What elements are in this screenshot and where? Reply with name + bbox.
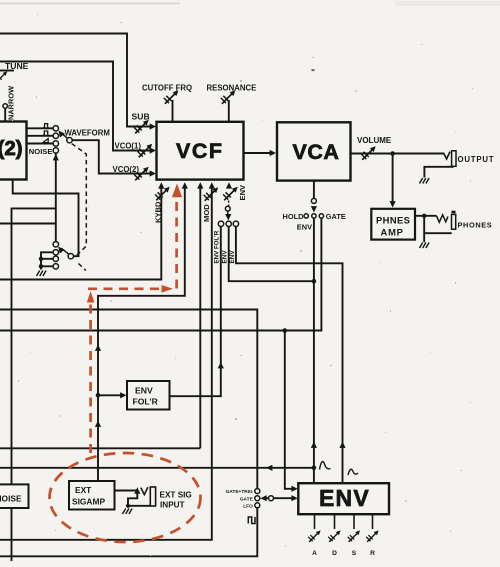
svg-text:VCO(2): VCO(2) bbox=[113, 165, 140, 174]
wire cutoff pot to VCF bbox=[172, 100, 174, 122]
node VCA mode switch common bbox=[312, 214, 316, 218]
wire gate branch to ENV bbox=[285, 331, 294, 489]
glyph ramp wave bbox=[43, 139, 48, 143]
arrow into env folr bbox=[120, 392, 126, 398]
node VCF mod switch pos env folr bbox=[218, 221, 223, 226]
svg-text:VOLUME: VOLUME bbox=[357, 136, 392, 145]
wire SUB feed from top-left bbox=[0, 34, 151, 127]
wire gate distribution bbox=[0, 218, 321, 330]
wire ext jack switch contact bbox=[128, 491, 150, 506]
svg-text:WAVEFORM: WAVEFORM bbox=[65, 129, 110, 138]
svg-text:FOL’R: FOL’R bbox=[133, 397, 159, 407]
pot release R bbox=[366, 530, 378, 541]
glyph LFO square wave bbox=[248, 517, 255, 524]
arrow into phones amp bbox=[390, 201, 396, 207]
arrow trigger arm left bbox=[260, 495, 266, 501]
node junction switch2 gnd a bbox=[39, 257, 43, 261]
wire env to switch right bbox=[236, 227, 343, 484]
arrow into VCF vco1 input bbox=[150, 147, 156, 153]
node junction phones gnd bbox=[422, 214, 426, 218]
wire VCF input 4 from bottom loop bbox=[199, 186, 201, 448]
svg-text:OUTPUT: OUTPUT bbox=[458, 155, 495, 164]
ground ext sig jack bbox=[123, 509, 133, 515]
arrow ext riser up a bbox=[95, 345, 101, 351]
svg-text:LFO: LFO bbox=[243, 503, 253, 509]
svg-text:ENV: ENV bbox=[221, 250, 228, 264]
ground switch2 bbox=[37, 271, 47, 277]
ext path horizontal dashed bbox=[88, 287, 162, 290]
svg-text:GATE: GATE bbox=[240, 496, 254, 502]
wire bottom loop LFO bbox=[0, 448, 257, 556]
ENV box ADSR stubs bbox=[315, 514, 373, 529]
svg-text:ENV: ENV bbox=[319, 485, 370, 511]
svg-text:VCF: VCF bbox=[176, 139, 224, 163]
wire output jack ground branch bbox=[424, 167, 453, 178]
scan speck bbox=[312, 69, 315, 71]
wire env riser bbox=[313, 218, 315, 483]
node waveform switch pos square bbox=[53, 133, 58, 138]
wire VCF to VCA bbox=[244, 152, 272, 154]
wire attack pot stub bbox=[314, 514, 316, 529]
svg-text:EXT: EXT bbox=[75, 485, 92, 495]
arrowheads bbox=[53, 123, 396, 501]
pot ENV depth bbox=[223, 187, 238, 201]
mech link waveform to switch2 dashed bbox=[72, 144, 87, 271]
svg-text:AMP: AMP bbox=[381, 227, 404, 238]
node switch2 pos 3 bbox=[53, 256, 58, 261]
block ENV FOL'R bbox=[127, 381, 170, 410]
svg-text:KYBD: KYBD bbox=[154, 201, 163, 223]
svg-text:S: S bbox=[352, 550, 357, 557]
boxes bbox=[0, 122, 415, 515]
node NARROW switch bbox=[3, 104, 8, 109]
wire phones jack ground branch bbox=[424, 216, 452, 243]
arrow VCA switch down bbox=[311, 206, 317, 212]
wire noise distribution riser bbox=[55, 153, 57, 241]
op block VCF bbox=[157, 122, 244, 180]
node waveform switch pos noise bbox=[53, 148, 58, 153]
pot RESONANCE bbox=[221, 90, 236, 104]
node switch2 pos 2 bbox=[53, 250, 58, 255]
svg-text:ENV: ENV bbox=[297, 223, 312, 232]
glyph env shape a bbox=[320, 462, 331, 470]
pot VCO(1) bbox=[138, 144, 153, 158]
pot CUTOFF FRQ bbox=[164, 90, 179, 104]
node trigger switch common bbox=[269, 496, 274, 501]
wire noise box bottom stub bbox=[11, 508, 13, 561]
pot MOD bbox=[204, 187, 219, 201]
wire noise branch to left edge bbox=[0, 223, 56, 225]
svg-text:D: D bbox=[332, 550, 337, 557]
arrow env right riser up bbox=[339, 442, 345, 448]
wire phones amp to jack bbox=[415, 215, 437, 217]
svg-text:SUB: SUB bbox=[132, 112, 150, 122]
jack PHONES sleeve bbox=[452, 211, 456, 214]
pot attack A bbox=[308, 530, 320, 541]
arrow env riser up bbox=[311, 442, 317, 448]
svg-text:HOLD: HOLD bbox=[283, 212, 305, 221]
jack EXT SIG tip contact bbox=[141, 487, 148, 494]
ext path arrow up bbox=[87, 291, 95, 302]
pot VOLUME bbox=[361, 146, 376, 160]
wire env distribution to switch mid bbox=[229, 227, 314, 282]
node VCF env switch selector bbox=[225, 206, 230, 211]
arrow waveform switch arm bbox=[56, 129, 65, 138]
highlight ellipse ext input bbox=[50, 453, 201, 542]
svg-text:ENV: ENV bbox=[238, 184, 247, 201]
arrow env folr output up bbox=[218, 362, 224, 368]
arrow ext jack up bbox=[134, 487, 140, 493]
ground phones jack bbox=[420, 243, 430, 249]
svg-text:VCO(1): VCO(1) bbox=[115, 142, 142, 151]
wire EXT signal riser to VCF bbox=[98, 186, 185, 481]
ext path thick arrow into VCF bbox=[172, 184, 182, 198]
svg-text:NARROW: NARROW bbox=[7, 86, 16, 120]
ext path riser dashed bbox=[89, 303, 92, 453]
svg-text:VCA: VCA bbox=[293, 140, 340, 164]
wire decay pot stub bbox=[334, 514, 336, 529]
svg-text:SIGAMP: SIGAMP bbox=[72, 497, 105, 507]
pot decay D bbox=[328, 530, 340, 541]
node waveform switch pos pulse bbox=[53, 126, 58, 131]
svg-text:PHNES: PHNES bbox=[376, 215, 410, 226]
wire VCA output bbox=[351, 153, 444, 155]
arrow gate into env box bbox=[291, 486, 297, 492]
wire ENV FOL'R input bbox=[98, 394, 124, 396]
node junction env dist lower bbox=[312, 466, 317, 471]
wire trigger switch arm contact bbox=[263, 497, 268, 499]
svg-text:NOISE: NOISE bbox=[29, 147, 53, 156]
jack PHONES spring contact bbox=[437, 215, 449, 223]
node junction env folr input bbox=[96, 393, 101, 398]
glyph square wave bbox=[43, 131, 49, 135]
svg-text:ENV: ENV bbox=[135, 386, 153, 396]
node junction ext jack gnd bbox=[126, 504, 130, 508]
pot SUB bbox=[134, 120, 149, 134]
wire ENV FOL'R output to switch bbox=[170, 227, 221, 397]
wire VCA mode switch stub bbox=[313, 181, 315, 199]
wire ext sigamp to jack bbox=[115, 490, 138, 492]
glyph env shape b bbox=[348, 469, 358, 475]
block EXT SIGAMP bbox=[69, 481, 115, 510]
orange overlay bbox=[50, 184, 201, 543]
node waveform switch pos ramp bbox=[53, 141, 58, 146]
node trigger switch pos gate+trig bbox=[255, 489, 260, 494]
svg-text:GATE+TRIG: GATE+TRIG bbox=[226, 489, 253, 495]
VCO (2) module box bbox=[0, 122, 27, 180]
block PHNES AMP bbox=[371, 209, 415, 240]
wire trigger switch arm to ENV bbox=[274, 497, 294, 499]
wire waveform switch arm lever bbox=[61, 132, 68, 138]
svg-text:ENV FOL’R: ENV FOL’R bbox=[214, 230, 221, 263]
wire waveform line ramp bbox=[27, 143, 54, 145]
pot sustain S bbox=[348, 530, 360, 541]
node trigger switch pos lfo bbox=[255, 503, 260, 508]
wire TUNE stub bbox=[0, 70, 14, 72]
svg-text:R: R bbox=[370, 550, 375, 557]
wire resonance pot to VCF bbox=[228, 100, 230, 122]
arrow into VCF env bbox=[226, 182, 232, 188]
wire volume to phones amp bbox=[392, 154, 394, 204]
wire env selector arm bbox=[227, 211, 229, 216]
wire VCO(1) feed from top-left bbox=[0, 62, 151, 151]
wire NARROW switch lead bbox=[4, 108, 6, 121]
svg-text:CUTOFF FRQ: CUTOFF FRQ bbox=[142, 84, 192, 93]
scan streak top edge bbox=[0, 3, 180, 5]
svg-text:INPUT: INPUT bbox=[160, 501, 185, 510]
arrow into VCF kybd bbox=[158, 182, 164, 188]
arrow ext riser up b bbox=[95, 421, 101, 427]
ext path arrow right bbox=[162, 285, 174, 293]
node junction switch2 gnd b bbox=[39, 264, 43, 268]
arrow into VCF input4 bbox=[197, 182, 203, 188]
arrow env output left bbox=[266, 465, 272, 471]
wire switch2 grounded positions tie bbox=[41, 252, 53, 269]
jacks and small glyphs bbox=[43, 124, 456, 524]
node trigger switch pos gate bbox=[255, 496, 260, 501]
arrow switch2 arm bbox=[56, 245, 65, 254]
svg-text:ENV: ENV bbox=[229, 250, 236, 264]
block NOISE bbox=[0, 484, 29, 508]
node VCA mode switch top bbox=[311, 198, 316, 203]
jack OUTPUT sleeve bbox=[452, 151, 456, 167]
svg-text:NOISE: NOISE bbox=[0, 494, 22, 504]
svg-text:TUNE: TUNE bbox=[5, 61, 29, 71]
grounds bbox=[37, 178, 430, 514]
op block VCA bbox=[277, 122, 351, 180]
svg-text:(2): (2) bbox=[0, 137, 23, 160]
pot VCO(2) bbox=[134, 167, 149, 181]
node junction gate to env bbox=[283, 328, 288, 333]
node switch2 pos 4 bbox=[53, 264, 58, 269]
node junction volume out bbox=[390, 151, 395, 156]
wire waveform line square bbox=[27, 135, 54, 137]
switch circles bbox=[3, 104, 324, 508]
wire VCO(2) from waveform switch arm bbox=[72, 140, 150, 173]
wire noise branch to noise box bbox=[12, 208, 56, 484]
arrow VCF env switch selector down bbox=[225, 214, 231, 220]
wire release pot stub bbox=[372, 514, 374, 529]
glyph pulse wave bbox=[43, 124, 49, 128]
svg-text:MOD: MOD bbox=[202, 204, 211, 222]
wire kybd gate to trigger switch bbox=[0, 310, 257, 489]
wire switch2 arm lever bbox=[61, 248, 69, 254]
node switch2 arm bbox=[68, 254, 73, 259]
wire waveform line pulse bbox=[27, 127, 54, 129]
node waveform switch arm bbox=[67, 138, 72, 143]
svg-text:A: A bbox=[312, 550, 317, 557]
wire MOD/LFO line bbox=[0, 186, 212, 540]
svg-text:EXT SIG: EXT SIG bbox=[160, 491, 192, 500]
node switch2 pos noise bbox=[53, 242, 58, 247]
arrow into VCA bbox=[270, 150, 276, 156]
arrow noise riser up bbox=[53, 154, 59, 160]
wire switch2 arm riser to box (2) bbox=[13, 180, 79, 257]
node VCA mode switch pos gate bbox=[319, 214, 323, 218]
jack OUTPUT tip contact bbox=[443, 152, 450, 159]
wire env output to left edge bbox=[0, 467, 314, 469]
svg-text:RESONANCE: RESONANCE bbox=[207, 84, 257, 93]
node VCF mod switch pos env b bbox=[233, 221, 238, 226]
node VCF mod switch pos env a bbox=[226, 221, 231, 226]
svg-text:PHONES: PHONES bbox=[458, 221, 493, 230]
arrow into VCF sub input bbox=[150, 123, 156, 129]
svg-text:GATE: GATE bbox=[326, 212, 346, 221]
block ENV generator bbox=[298, 483, 389, 514]
pots bbox=[0, 71, 379, 542]
pot TUNE (partial) bbox=[0, 71, 7, 82]
arrow into VCF mod bbox=[209, 182, 215, 188]
jack EXT SIG sleeve bbox=[150, 487, 155, 506]
ext path riser2 dashed bbox=[175, 201, 178, 289]
node junction env dist upper bbox=[312, 279, 317, 284]
arrow trigger into env box bbox=[291, 495, 297, 501]
ground output jack bbox=[420, 178, 430, 184]
arrow into VCF vco2 input bbox=[150, 170, 156, 176]
arrow into VCF ext sig bbox=[182, 182, 188, 188]
node VCA mode switch pos hold bbox=[304, 214, 308, 218]
wire KYBD line bbox=[0, 186, 161, 280]
wire sustain pot stub bbox=[353, 514, 355, 529]
pot KYBD bbox=[155, 187, 170, 201]
wire env pot to selector dashed bbox=[228, 201, 230, 207]
